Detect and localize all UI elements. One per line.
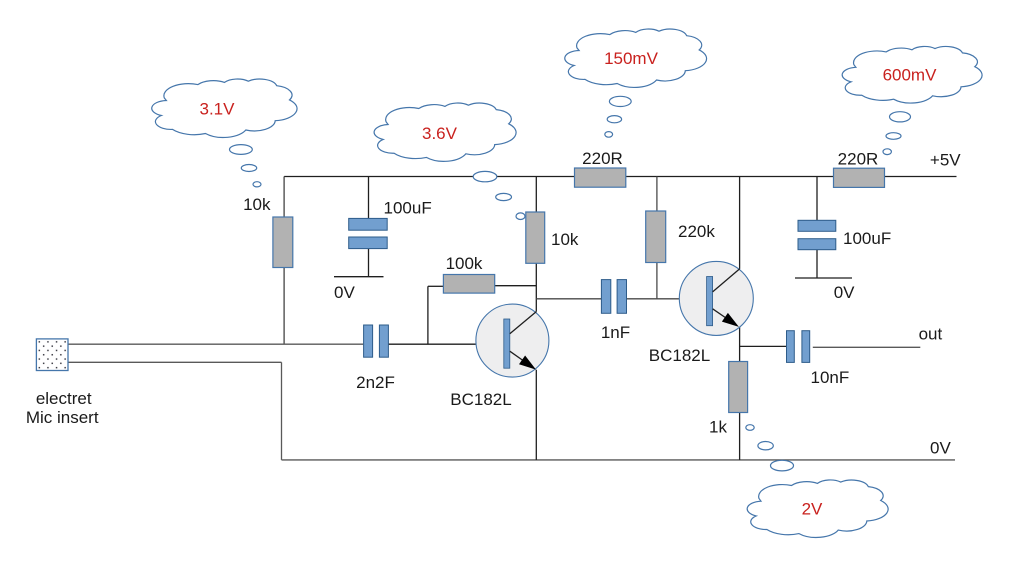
svg-text:10nF: 10nF xyxy=(811,368,850,387)
svg-text:BC182L: BC182L xyxy=(649,346,710,365)
svg-text:3.6V: 3.6V xyxy=(422,124,458,143)
svg-text:100uF: 100uF xyxy=(384,199,432,218)
svg-text:220R: 220R xyxy=(838,150,879,169)
svg-text:10k: 10k xyxy=(551,230,579,249)
svg-text:Mic insert: Mic insert xyxy=(26,408,99,427)
svg-text:+5V: +5V xyxy=(930,150,961,169)
svg-text:3.1V: 3.1V xyxy=(200,99,236,118)
svg-text:1nF: 1nF xyxy=(601,323,630,342)
svg-text:out: out xyxy=(919,324,943,343)
svg-text:0V: 0V xyxy=(834,283,855,302)
svg-text:1k: 1k xyxy=(709,417,727,436)
svg-text:220R: 220R xyxy=(582,149,623,168)
svg-text:0V: 0V xyxy=(334,283,355,302)
svg-text:0V: 0V xyxy=(930,439,951,458)
svg-text:2V: 2V xyxy=(802,499,823,518)
svg-text:600mV: 600mV xyxy=(883,66,938,85)
svg-text:100k: 100k xyxy=(446,254,483,273)
svg-text:2n2F: 2n2F xyxy=(356,373,395,392)
svg-text:10k: 10k xyxy=(243,195,271,214)
svg-text:220k: 220k xyxy=(678,222,715,241)
svg-text:electret: electret xyxy=(36,389,92,408)
svg-text:100uF: 100uF xyxy=(843,229,891,248)
svg-text:150mV: 150mV xyxy=(604,49,659,68)
svg-text:BC182L: BC182L xyxy=(450,390,511,409)
